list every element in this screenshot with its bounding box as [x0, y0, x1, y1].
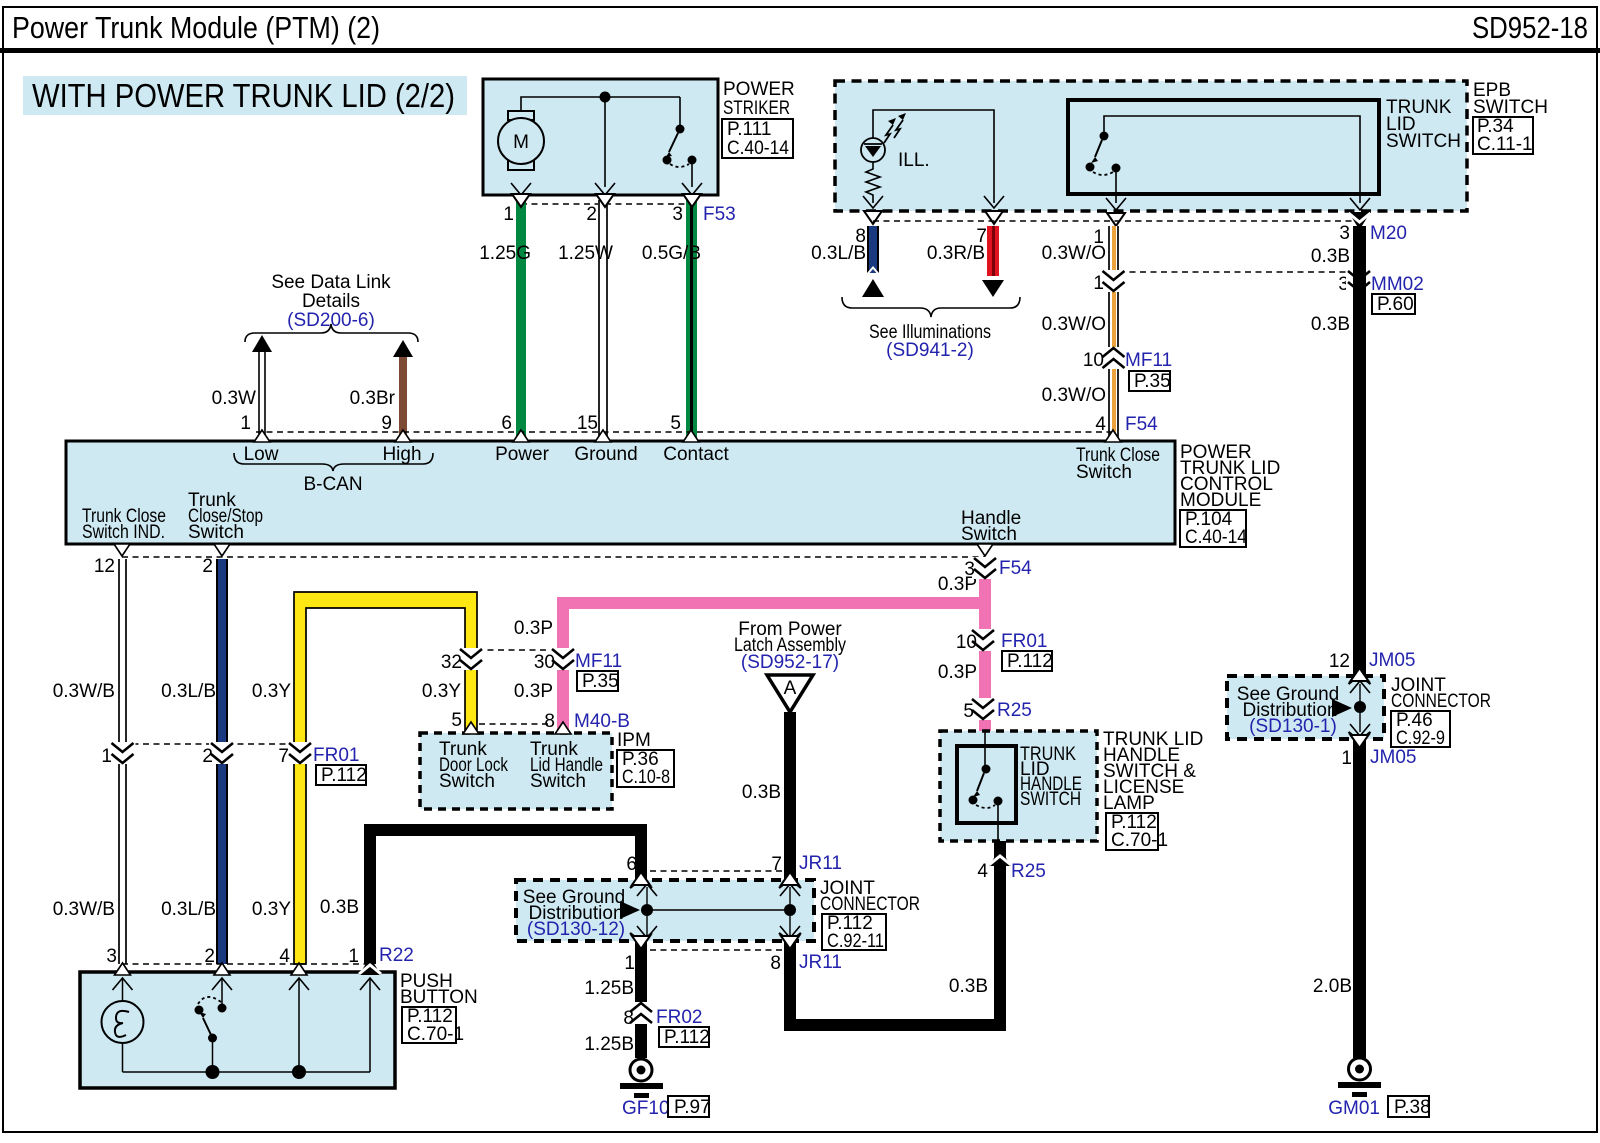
wire 0.3W/B — [53, 559, 127, 964]
svg-text:SD952-18: SD952-18 — [1472, 10, 1588, 45]
power striker box P.111 — [483, 79, 795, 195]
svg-text:Switch: Switch — [439, 771, 495, 792]
svg-text:C.11-1: C.11-1 — [1477, 134, 1533, 155]
svg-text:2: 2 — [586, 204, 597, 225]
ground GM01 — [1328, 1058, 1430, 1119]
wire 0.3P — [514, 557, 991, 731]
svg-text:3: 3 — [964, 559, 975, 580]
svg-text:0.3W/O: 0.3W/O — [1042, 314, 1106, 335]
wire 0.3B from A to JR11 — [742, 712, 796, 1025]
svg-text:C.40-14: C.40-14 — [1185, 527, 1247, 548]
IPM box P.36 — [420, 730, 674, 809]
power trunk lid control module P.104 — [66, 441, 1280, 548]
svg-text:B-CAN: B-CAN — [303, 474, 362, 495]
svg-text:C.92-11: C.92-11 — [827, 931, 884, 952]
svg-text:Switch: Switch — [1076, 462, 1132, 483]
svg-text:(SD200-6): (SD200-6) — [287, 310, 375, 331]
page arrow from illuminations (up) — [862, 279, 884, 297]
push button lamp — [102, 978, 144, 1072]
svg-text:Details: Details — [302, 291, 360, 312]
wire 0.3L/B top — [811, 226, 879, 276]
svg-text:POWER: POWER — [723, 79, 795, 100]
svg-text:P.112: P.112 — [664, 1027, 710, 1048]
striker pin exit arrows — [511, 183, 531, 195]
svg-text:WITH POWER TRUNK LID (2/2): WITH POWER TRUNK LID (2/2) — [32, 77, 455, 114]
svg-text:0.3Y: 0.3Y — [252, 899, 291, 920]
svg-text:1: 1 — [1341, 748, 1352, 769]
trunk lid switch inner box — [1068, 97, 1461, 194]
svg-text:0.3P: 0.3P — [514, 618, 553, 639]
connector row 32/30 — [441, 648, 622, 692]
svg-text:See Data Link: See Data Link — [271, 272, 391, 293]
svg-text:8: 8 — [623, 1008, 634, 1029]
junction in striker — [600, 92, 611, 103]
svg-text:MODULE: MODULE — [1180, 490, 1261, 511]
svg-text:1.25G: 1.25G — [479, 243, 531, 264]
svg-text:0.3L/B: 0.3L/B — [811, 243, 866, 264]
M20 pin3 black entry arrow — [1349, 212, 1371, 230]
wire 0.3L/B lower — [161, 559, 228, 964]
svg-text:(SD941-2): (SD941-2) — [886, 340, 974, 361]
svg-text:C.70-1: C.70-1 — [1111, 830, 1168, 851]
wire 0.3Br — [350, 357, 407, 441]
joint connector JR11 — [516, 853, 920, 974]
svg-text:8: 8 — [770, 953, 781, 974]
svg-text:P.60: P.60 — [1377, 294, 1414, 315]
svg-text:0.3W/B: 0.3W/B — [53, 681, 115, 702]
svg-text:CONNECTOR: CONNECTOR — [820, 894, 920, 915]
wire 0.3W — [212, 352, 266, 441]
page arrow to data link (0.3Br) — [393, 340, 413, 357]
module top pin notches — [254, 430, 270, 442]
connector R25 pin 4 black arrow — [977, 848, 1045, 882]
svg-text:Power: Power — [495, 444, 550, 465]
svg-text:F54: F54 — [999, 558, 1032, 579]
JR11 wire entry arrows — [630, 872, 652, 888]
svg-text:0.3Y: 0.3Y — [422, 681, 461, 702]
connector MF11 pin 10 — [1083, 347, 1172, 392]
svg-text:MF11: MF11 — [1125, 350, 1172, 371]
see illuminations note — [842, 297, 1020, 361]
svg-text:CONNECTOR: CONNECTOR — [1391, 691, 1491, 712]
svg-text:High: High — [382, 444, 421, 465]
EPB switch box P.34 — [835, 80, 1548, 211]
svg-text:LAMP: LAMP — [1103, 793, 1155, 814]
svg-text:1: 1 — [503, 204, 514, 225]
svg-text:Contact: Contact — [663, 444, 729, 465]
svg-text:STRIKER: STRIKER — [723, 98, 790, 119]
svg-text:FR02: FR02 — [656, 1007, 702, 1028]
svg-text:JM05: JM05 — [1369, 650, 1415, 671]
svg-text:0.3W: 0.3W — [212, 388, 256, 409]
svg-text:10: 10 — [1083, 350, 1104, 371]
LED ILL. with resistor — [861, 113, 930, 203]
IPM pin notches — [463, 722, 479, 734]
wire 0.3B from R25 to JR11 — [784, 841, 1006, 1031]
svg-text:R25: R25 — [997, 700, 1032, 721]
svg-text:JR11: JR11 — [799, 853, 842, 874]
svg-text:0.3R/B: 0.3R/B — [927, 243, 985, 264]
svg-text:9: 9 — [381, 413, 392, 434]
wire 0.3B thick to push button and JR11 — [320, 824, 647, 1058]
svg-text:JR11: JR11 — [799, 952, 842, 973]
svg-text:FR01: FR01 — [1001, 631, 1047, 652]
push button box P.112 — [80, 971, 478, 1088]
wire 0.3B right — [1311, 226, 1366, 1058]
connector F54 module top row — [240, 413, 1113, 434]
svg-text:8: 8 — [544, 711, 555, 732]
svg-text:0.3L/B: 0.3L/B — [161, 899, 216, 920]
svg-text:1: 1 — [101, 746, 112, 767]
svg-text:1: 1 — [348, 946, 359, 967]
svg-text:3: 3 — [1339, 223, 1350, 244]
wire 1.25W — [558, 200, 613, 441]
page arrow to data link (0.3W) — [252, 335, 272, 352]
connector MM02 row — [1093, 270, 1423, 315]
svg-text:Switch: Switch — [961, 524, 1017, 545]
svg-text:P.38: P.38 — [1394, 1097, 1431, 1118]
svg-text:P.35: P.35 — [1134, 371, 1171, 392]
connector FR02 — [623, 1002, 709, 1048]
svg-text:C.92-9: C.92-9 — [1396, 728, 1445, 749]
svg-text:15: 15 — [577, 413, 598, 434]
svg-text:MF11: MF11 — [575, 651, 622, 672]
svg-text:3: 3 — [672, 204, 683, 225]
svg-text:C.70-1: C.70-1 — [407, 1024, 464, 1045]
svg-text:M40-B: M40-B — [574, 711, 630, 732]
see data link details note — [245, 272, 418, 342]
svg-text:Ground: Ground — [574, 444, 637, 465]
svg-text:Switch: Switch — [530, 771, 586, 792]
svg-text:R25: R25 — [1011, 861, 1046, 882]
connector R25 pin 5 — [963, 698, 1031, 722]
svg-text:10: 10 — [956, 632, 977, 653]
svg-text:Low: Low — [244, 444, 279, 465]
svg-text:0.3W/B: 0.3W/B — [53, 899, 115, 920]
svg-text:12: 12 — [94, 556, 115, 577]
svg-text:P.112: P.112 — [321, 765, 367, 786]
connector FR01 pin 10 on pink — [956, 629, 1053, 672]
svg-text:5: 5 — [451, 710, 462, 731]
connector FR01 row (pins 1,2,7) — [101, 742, 366, 786]
svg-text:0.3B: 0.3B — [949, 976, 988, 997]
svg-text:SWITCH: SWITCH — [1386, 131, 1461, 152]
connector M20 row — [855, 221, 1407, 248]
svg-text:0.3W/O: 0.3W/O — [1042, 385, 1106, 406]
from power latch assembly A — [734, 619, 846, 712]
svg-text:GF10: GF10 — [622, 1098, 670, 1119]
svg-text:C.40-14: C.40-14 — [727, 138, 789, 159]
svg-text:0.3B: 0.3B — [742, 782, 781, 803]
svg-text:IPM: IPM — [617, 730, 651, 751]
svg-text:P.111: P.111 — [727, 119, 771, 140]
trunk lid handle switch contacts — [969, 731, 1003, 841]
svg-text:C.10-8: C.10-8 — [622, 767, 670, 788]
svg-text:3: 3 — [106, 946, 117, 967]
svg-text:1.25W: 1.25W — [558, 243, 613, 264]
svg-text:Power Trunk Module (PTM) (2): Power Trunk Module (PTM) (2) — [12, 10, 380, 45]
svg-text:SWITCH: SWITCH — [1473, 97, 1548, 118]
svg-text:P.97: P.97 — [674, 1097, 711, 1118]
svg-text:0.3Y: 0.3Y — [252, 681, 291, 702]
svg-text:BUTTON: BUTTON — [400, 987, 478, 1008]
svg-text:5: 5 — [670, 413, 681, 434]
svg-text:2: 2 — [202, 556, 213, 577]
svg-text:A: A — [784, 678, 797, 699]
svg-text:M20: M20 — [1370, 223, 1407, 244]
svg-text:32: 32 — [441, 652, 462, 673]
svg-text:(SD130-1): (SD130-1) — [1249, 716, 1337, 737]
section label WITH POWER TRUNK LID (2/2) — [23, 76, 467, 115]
trunk lid handle switch box — [940, 729, 1203, 851]
svg-text:0.3B: 0.3B — [320, 897, 359, 918]
wire 0.3W/O — [1042, 226, 1119, 441]
svg-text:7: 7 — [278, 746, 289, 767]
page arrow to illuminations (down) — [982, 280, 1004, 297]
svg-text:ILL.: ILL. — [898, 150, 930, 171]
svg-text:Switch IND.: Switch IND. — [82, 522, 165, 543]
JM05 wire entry arrows — [1349, 668, 1371, 684]
trunk lid switch contacts — [1086, 116, 1361, 203]
module top pin labels — [244, 444, 1160, 483]
B-CAN brace — [234, 453, 433, 495]
wire 1.25G — [479, 200, 531, 441]
svg-text:0.3B: 0.3B — [1311, 246, 1350, 267]
svg-text:(SD952-17): (SD952-17) — [741, 652, 839, 673]
wire 0.3Y — [252, 592, 477, 964]
joint connector JM05 — [1227, 650, 1491, 769]
connector F54 pin3 chevron on pink — [972, 557, 998, 579]
svg-text:0.3B: 0.3B — [1311, 314, 1350, 335]
svg-text:7: 7 — [771, 854, 782, 875]
svg-text:4: 4 — [977, 861, 988, 882]
svg-text:1.25B: 1.25B — [584, 1034, 634, 1055]
push button internal wires — [123, 978, 371, 1079]
svg-text:0.3W/O: 0.3W/O — [1042, 243, 1106, 264]
ILL wire to pin 7 — [873, 110, 994, 203]
svg-text:1: 1 — [240, 413, 251, 434]
push button pin entry arrows — [115, 963, 131, 975]
module bottom pin notches — [114, 544, 130, 556]
connector F53 — [503, 204, 735, 225]
svg-text:0.3P: 0.3P — [514, 681, 553, 702]
striker wire entry arrows below F53 — [512, 194, 530, 207]
EPB pin exit arrows — [863, 196, 883, 208]
power striker switch — [663, 97, 697, 187]
svg-text:0.5G/B: 0.5G/B — [642, 243, 701, 264]
power striker internal wires — [521, 97, 680, 187]
motor M — [498, 111, 544, 170]
svg-text:6: 6 — [626, 854, 637, 875]
svg-text:R22: R22 — [379, 945, 414, 966]
svg-text:MM02: MM02 — [1371, 274, 1424, 295]
svg-text:0.3L/B: 0.3L/B — [161, 681, 216, 702]
svg-text:F54: F54 — [1125, 414, 1158, 435]
svg-text:2: 2 — [202, 746, 213, 767]
svg-text:1: 1 — [1093, 273, 1104, 294]
svg-text:4: 4 — [279, 946, 290, 967]
wire 0.5G/B — [642, 200, 701, 441]
push button switch — [195, 978, 227, 1072]
connector F54 pin 4 label — [1095, 414, 1158, 435]
wire 0.3R/B — [927, 226, 999, 276]
svg-text:1.25B: 1.25B — [584, 978, 634, 999]
svg-text:(SD130-12): (SD130-12) — [527, 919, 625, 940]
module bottom pin labels — [82, 490, 1021, 545]
wire 1.25B labels — [584, 978, 634, 1055]
svg-text:12: 12 — [1329, 651, 1350, 672]
svg-text:2.0B: 2.0B — [1313, 976, 1352, 997]
svg-text:5: 5 — [963, 701, 974, 722]
svg-text:GM01: GM01 — [1328, 1098, 1380, 1119]
svg-text:P.112: P.112 — [1007, 651, 1053, 672]
svg-text:2: 2 — [204, 946, 215, 967]
svg-text:Switch: Switch — [188, 522, 244, 543]
connector F54 module bottom row — [94, 556, 985, 577]
svg-text:P.35: P.35 — [582, 671, 619, 692]
svg-text:6: 6 — [501, 413, 512, 434]
svg-text:JM05: JM05 — [1370, 747, 1416, 768]
svg-text:1: 1 — [624, 953, 635, 974]
svg-text:FR01: FR01 — [313, 745, 359, 766]
connector pins 5/8 into IPM — [451, 710, 630, 732]
ground GF10 — [620, 1059, 711, 1119]
svg-text:F53: F53 — [703, 204, 736, 225]
svg-text:SWITCH: SWITCH — [1020, 789, 1081, 810]
svg-text:0.3Br: 0.3Br — [350, 388, 396, 409]
svg-text:M: M — [513, 132, 529, 153]
svg-text:0.3P: 0.3P — [938, 662, 977, 683]
connector R22 row — [106, 945, 413, 967]
svg-text:30: 30 — [534, 652, 555, 673]
